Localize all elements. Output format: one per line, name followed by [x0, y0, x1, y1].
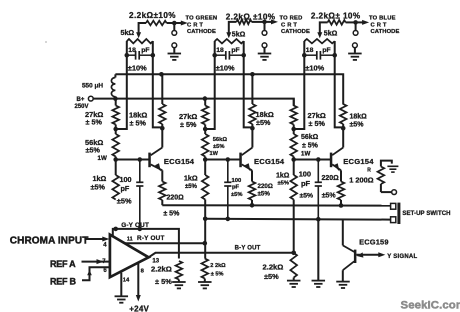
- resistor 220Ω emitter stage1: [159, 170, 184, 217]
- svg-text:B+: B+: [77, 97, 85, 103]
- wire 1k stage3 to B-Y: [293, 200, 295, 253]
- label 1k stage1: [91, 174, 107, 192]
- svg-text:100: 100: [299, 170, 311, 179]
- svg-text:220Ω: 220Ω: [167, 195, 185, 202]
- wire B-Y output line pin 13: [149, 253, 294, 265]
- resistor 27k ±5% stage3: [290, 99, 297, 129]
- label 100pF stage3: [299, 170, 313, 200]
- resistor 27k ±5% stage1: [112, 99, 119, 129]
- label 1k stage2: [184, 174, 198, 191]
- svg-text:R: R: [367, 167, 371, 173]
- svg-text:Y SIGNAL: Y SIGNAL: [387, 254, 417, 260]
- svg-text:1kΩ: 1kΩ: [184, 174, 198, 183]
- junction dot cap left stage3: [302, 53, 307, 58]
- switch SET-UP SWITCH: [391, 203, 451, 224]
- svg-text:100: 100: [120, 175, 132, 184]
- wiper arrow potentiometer stage2: [226, 31, 231, 38]
- node output stage1 (CRT drive): [172, 21, 177, 26]
- junction dot bias node stage3: [291, 127, 296, 132]
- svg-text:CHROMA INPUT: CHROMA INPUT: [10, 235, 89, 246]
- capacitor 100pF stage3: [315, 160, 322, 281]
- svg-text:18: 18: [306, 47, 314, 54]
- svg-text:C R T: C R T: [187, 22, 203, 28]
- wire base line stage1: [116, 159, 149, 161]
- capacitor 18pF trimmer stage3: [304, 47, 334, 73]
- junction dot R-Y node: [203, 241, 208, 246]
- transistor Q2 ECG154: [239, 128, 285, 171]
- label R-Y OUT: [137, 235, 165, 242]
- label REF B: [50, 276, 77, 286]
- label 2.2k G-Y: [151, 264, 172, 286]
- junction dot 18k stage2 at bus: [250, 72, 255, 77]
- label 100pF stage2: [231, 178, 243, 198]
- ground stage1 top: [168, 54, 182, 60]
- svg-text:2.2kΩ± 10%: 2.2kΩ± 10%: [311, 12, 361, 21]
- junction dot 18k stage1 at bus: [159, 72, 164, 77]
- wire pot right rail / collector feed stage1: [153, 41, 163, 127]
- junction dot 100pF top stage2: [226, 157, 231, 162]
- inductor L 550uH choke: [82, 74, 115, 98]
- junction dot 100pF stage2 on line B: [226, 217, 231, 222]
- svg-text:±5%: ±5%: [117, 197, 132, 206]
- label CHROMA INPUT: [10, 235, 89, 246]
- wire pot left rail stage3: [294, 41, 305, 129]
- capacitor 100pF stage1: [136, 160, 143, 229]
- svg-text:REF B: REF B: [50, 276, 77, 286]
- label G-Y OUT: [121, 222, 149, 229]
- capacitor 18pF trimmer stage2: [215, 47, 244, 73]
- svg-text:56kΩ: 56kΩ: [213, 137, 228, 143]
- terminal test point stage2: [262, 22, 267, 35]
- svg-text:± 5%: ± 5%: [130, 119, 147, 128]
- wire arrow to CRT cathode stage1: [174, 16, 217, 36]
- wire 2.2k G-Y to ground: [178, 280, 180, 282]
- wire pin 8 to +24V: [136, 263, 145, 302]
- terminal set-up switch upper: [381, 190, 397, 195]
- junction dot collector node stage2: [250, 126, 255, 131]
- resistor 18k ±5% stage2: [249, 74, 256, 128]
- svg-text:± 5%: ± 5%: [155, 277, 172, 286]
- label 2.2k B-Y: [263, 263, 284, 281]
- svg-text:±10%: ±10%: [305, 64, 324, 73]
- svg-text:220Ω: 220Ω: [322, 175, 340, 182]
- wire Y signal output: [356, 252, 417, 259]
- svg-text:± 5%: ± 5%: [86, 118, 103, 127]
- svg-text:1kΩ: 1kΩ: [276, 173, 290, 180]
- junction dot 1k stage1 at G-Y: [113, 227, 118, 232]
- wire bus choked B+ rail (top horizontal bus): [115, 74, 343, 104]
- junction dot 100pF stage1 at G-Y: [138, 227, 143, 232]
- wire 2.2k R-Y to ground: [204, 279, 206, 282]
- svg-text:100: 100: [232, 178, 242, 184]
- wire arrow to CRT cathode stage3: [356, 16, 400, 36]
- svg-text:±5%: ±5%: [322, 192, 337, 199]
- junction dot bias node stage1: [113, 127, 118, 132]
- svg-text:2.2kΩ±10%: 2.2kΩ±10%: [129, 11, 176, 20]
- label 18k stage1: [129, 111, 147, 128]
- svg-text:18: 18: [216, 47, 224, 54]
- svg-text:1W: 1W: [301, 150, 310, 157]
- svg-text:±5%: ±5%: [278, 181, 290, 187]
- wire pin 14 to ground: [121, 273, 130, 296]
- svg-text:5kΩ: 5kΩ: [121, 29, 135, 37]
- ground under 2.2k R-Y: [198, 282, 212, 288]
- terminal spark-gap to ground stage2: [262, 43, 267, 53]
- svg-text:1kΩ: 1kΩ: [93, 174, 107, 183]
- svg-text:±5%: ±5%: [256, 118, 271, 127]
- potentiometer 5k stage1: [121, 29, 153, 43]
- resistor 56k ±5% 1W stage3: [290, 129, 297, 160]
- ground under 2.2k G-Y: [172, 282, 186, 288]
- junction dot line B at V2: [203, 217, 208, 222]
- svg-text:± 5%: ± 5%: [211, 272, 224, 278]
- junction dot collector node stage1: [160, 126, 165, 131]
- svg-text:±5%: ±5%: [231, 192, 243, 198]
- junction dot cap left stage1: [125, 53, 130, 58]
- svg-text:ECG154: ECG154: [343, 157, 374, 166]
- wire B+ 250V rail: [93, 99, 294, 106]
- svg-text:1W: 1W: [210, 151, 219, 157]
- label 27k stage1: [85, 110, 103, 127]
- label 56k stage2: [210, 137, 228, 157]
- transistor Q3 ECG154: [330, 128, 374, 171]
- resistor 2.2k ±5% B-Y load: [290, 253, 297, 281]
- label 27k stage3: [308, 111, 326, 128]
- wire emitter line A: [162, 204, 390, 206]
- junction dot collector node stage3: [341, 126, 346, 131]
- wire line B (R-Y distribution): [205, 218, 390, 221]
- label 27k stage2: [179, 112, 197, 129]
- svg-text:±5%: ±5%: [86, 146, 101, 155]
- ground pin 14: [115, 296, 129, 302]
- svg-text:±5%: ±5%: [350, 122, 365, 129]
- resistor 2.2k ±5% R-Y load: [202, 259, 209, 279]
- junction dot cap right stage2: [241, 53, 246, 58]
- resistor 1k ±5% stage1: [112, 160, 119, 200]
- wire arrow to CRT cathode stage2: [265, 16, 310, 36]
- wire G-Y output line: [113, 229, 179, 259]
- transistor Q1 ECG154: [148, 128, 195, 171]
- label 100pF stage1: [117, 175, 132, 206]
- svg-text:CATHODE: CATHODE: [187, 29, 216, 35]
- junction dot bias node stage2: [203, 127, 208, 132]
- svg-text:ECG159: ECG159: [359, 237, 389, 246]
- resistor 18k ±5% stage3: [340, 104, 347, 128]
- svg-text:±10%: ±10%: [216, 64, 235, 73]
- svg-text:TO RED: TO RED: [280, 16, 303, 22]
- wire pot left rail stage2: [205, 41, 215, 129]
- svg-text:5kΩ: 5kΩ: [232, 30, 246, 38]
- resistor 27k ±5% stage2: [202, 99, 209, 129]
- svg-text:± 5%: ± 5%: [180, 120, 197, 129]
- svg-text:REF A: REF A: [50, 259, 76, 269]
- speck artifact: [45, 41, 47, 43]
- svg-text:CATHODE: CATHODE: [371, 29, 400, 35]
- svg-text:B-Y OUT: B-Y OUT: [235, 245, 261, 251]
- terminal B+ 250V input: [75, 96, 94, 110]
- junction dot base node stage1: [113, 157, 118, 162]
- label SeekIC.com watermark: [401, 300, 460, 312]
- resistor 2.2k ±5% G-Y load: [176, 261, 183, 280]
- potentiometer 5k stage3: [304, 30, 337, 44]
- wire REF A pin 7: [82, 259, 110, 265]
- svg-text:G-Y OUT: G-Y OUT: [121, 222, 149, 229]
- capacitor 100pF stage2: [224, 160, 231, 219]
- svg-text:pF: pF: [231, 47, 239, 54]
- junction dot 100pF top stage3: [316, 157, 321, 162]
- op-amp U1 chroma demodulator: [110, 235, 149, 278]
- wire 100pF stage3 ground drop: [317, 219, 319, 280]
- label 18k stage2: [256, 110, 274, 127]
- potentiometer 5k stage2: [215, 30, 246, 43]
- junction dot base node stage2: [203, 157, 208, 162]
- ground under 100pF stage3 line: [312, 281, 326, 287]
- svg-text:2.2kΩ: 2.2kΩ: [151, 264, 172, 273]
- junction dot 220 stage2 on line A: [250, 203, 255, 208]
- svg-text:± 5%: ± 5%: [163, 211, 180, 218]
- label REF A: [50, 259, 76, 269]
- svg-text:1W: 1W: [98, 155, 107, 162]
- junction dot cap right stage3: [332, 53, 337, 58]
- label 1k stage3: [276, 173, 290, 187]
- ground stage2 top: [258, 54, 272, 60]
- ground 1200Ω: [387, 166, 398, 172]
- wire chroma input pin 4: [85, 237, 110, 249]
- svg-text:pF: pF: [322, 47, 330, 54]
- svg-text:CATHODE: CATHODE: [281, 29, 310, 35]
- junction dot B-Y node: [291, 251, 296, 256]
- label +24V: [129, 304, 149, 312]
- svg-text:2.2kΩ ±10%: 2.2kΩ ±10%: [226, 12, 276, 21]
- resistor 56k ±5% 1W stage1: [112, 129, 119, 160]
- svg-text:±5%: ±5%: [213, 144, 225, 150]
- junction dot cap left stage2: [212, 53, 217, 58]
- terminal spark-gap to ground stage1: [172, 43, 177, 53]
- label B-Y OUT: [235, 245, 261, 251]
- wire pot right rail / collector feed stage2: [244, 41, 253, 127]
- resistor 1k ±5% stage3: [290, 160, 297, 200]
- node output stage2 (CRT drive): [262, 20, 267, 25]
- svg-text:+24V: +24V: [129, 304, 149, 312]
- svg-text:C R T: C R T: [281, 22, 297, 28]
- node output stage3 (CRT drive): [353, 20, 358, 25]
- svg-text:pF: pF: [141, 47, 149, 54]
- svg-text:pF: pF: [301, 179, 311, 188]
- wire base line stage3: [294, 159, 331, 161]
- svg-text:ECG154: ECG154: [254, 157, 285, 166]
- terminal spark-gap to ground stage3: [353, 43, 358, 53]
- svg-text:220Ω: 220Ω: [258, 183, 273, 190]
- junction dot base node stage3: [291, 157, 296, 162]
- junction dot 27k stage2 at B+ rail: [203, 96, 208, 101]
- label 18k stage3: [350, 114, 368, 129]
- ground under 2.2k B-Y: [287, 281, 301, 287]
- svg-text:11: 11: [127, 237, 133, 243]
- label 56k stage3: [301, 134, 319, 157]
- junction dot cap right stage1: [151, 53, 156, 58]
- junction dot 100pF top stage1: [138, 157, 143, 162]
- resistor 220Ω emitter stage3: [322, 170, 345, 205]
- wire pot right rail / collector feed stage3: [335, 41, 344, 127]
- wire R-Y output line pin 11: [124, 237, 205, 244]
- terminal test point stage3: [353, 22, 358, 35]
- svg-text:18: 18: [128, 47, 136, 54]
- svg-text:14: 14: [123, 277, 130, 283]
- svg-text:2 2kΩ: 2 2kΩ: [210, 263, 226, 269]
- svg-text:C R T: C R T: [371, 22, 387, 28]
- svg-text:±5%: ±5%: [258, 191, 271, 198]
- junction dot 220 stage3 on line A: [339, 203, 344, 208]
- svg-text:R-Y OUT: R-Y OUT: [137, 235, 165, 242]
- resistor 220Ω emitter stage2: [249, 170, 273, 205]
- resistor 2.2k ±10% output stage1: [129, 11, 176, 31]
- svg-text:±10%: ±10%: [128, 64, 147, 73]
- svg-text:pF: pF: [232, 185, 240, 191]
- svg-text:18kΩ: 18kΩ: [350, 114, 368, 121]
- wire ECG159 collector to ground: [342, 270, 344, 281]
- terminal test point stage1: [172, 23, 177, 35]
- svg-text:±5%: ±5%: [300, 193, 314, 200]
- wire REF B pin 6: [82, 267, 110, 280]
- svg-text:± 5%: ± 5%: [309, 119, 326, 128]
- resistor 2.2k ±10% output stage2: [226, 12, 276, 31]
- svg-text:2.2kΩ: 2.2kΩ: [263, 263, 284, 272]
- resistor 18k ±5% stage1: [159, 74, 166, 128]
- wire line B to ECG159 base: [342, 219, 344, 245]
- ground stage3 top: [348, 54, 362, 60]
- ground ECG159: [336, 282, 350, 288]
- label 56k stage1: [85, 138, 107, 162]
- svg-text:SET-UP SWITCH: SET-UP SWITCH: [402, 211, 450, 217]
- svg-text:5kΩ: 5kΩ: [324, 30, 338, 38]
- svg-text:± 5%: ± 5%: [302, 143, 319, 150]
- svg-text:13: 13: [152, 258, 159, 264]
- wiper arrow potentiometer stage3: [317, 31, 322, 38]
- svg-text:SeekIC.com: SeekIC.com: [401, 300, 460, 312]
- resistor 2.2k ±10% output stage3: [311, 12, 361, 31]
- junction dot ground drop on line B: [316, 217, 321, 222]
- wire pot left rail stage1: [116, 41, 127, 129]
- svg-text:1 200Ω: 1 200Ω: [349, 175, 373, 184]
- resistor 56k ±5% 1W stage2: [202, 129, 209, 160]
- wiper arrow potentiometer stage1: [136, 31, 141, 38]
- svg-text:TO BLUE: TO BLUE: [369, 16, 396, 22]
- resistor 1200Ω Rb: [349, 161, 392, 193]
- svg-text:pF: pF: [121, 184, 130, 193]
- svg-text:TO GREEN: TO GREEN: [186, 16, 218, 22]
- resistor 1k ±5% stage2: [202, 160, 209, 200]
- svg-text:ECG154: ECG154: [164, 157, 195, 166]
- svg-text:550 μH: 550 μH: [82, 83, 103, 90]
- svg-text:±5%: ±5%: [185, 184, 198, 190]
- svg-text:56kΩ: 56kΩ: [301, 134, 319, 141]
- capacitor 18pF trimmer stage1: [127, 47, 153, 73]
- label 2.2k R-Y: [210, 263, 226, 278]
- junction dot inductor/27k at B+ rail: [113, 96, 118, 101]
- transistor Q4 ECG159: [343, 237, 389, 270]
- svg-text:±5%: ±5%: [264, 272, 279, 281]
- wire V2 vertical (1k2 bottom to ground): [204, 200, 206, 259]
- wire base line stage2: [205, 159, 240, 161]
- svg-text:±5%: ±5%: [91, 183, 106, 192]
